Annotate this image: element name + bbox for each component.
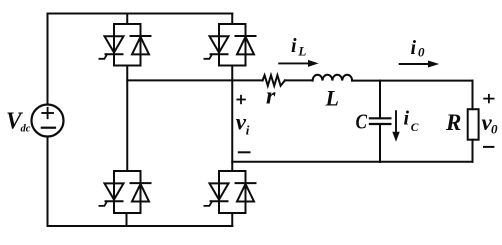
wire: bottom output return (node B to load) [232, 161, 472, 163]
wire: lead from top rail into upper-left cell [126, 14, 128, 25]
svg-text:0: 0 [491, 122, 498, 137]
thyristor T2 [204, 183, 228, 206]
wire: capacitor top lead [379, 81, 381, 119]
svg-text:i: i [411, 37, 417, 59]
svg-text:r: r [266, 84, 276, 110]
wire: upper-left cell frame [114, 24, 141, 66]
svg-text:i: i [246, 123, 250, 138]
inductor L [313, 75, 353, 81]
resistor r [263, 75, 285, 86]
svg-text:0: 0 [418, 45, 425, 60]
svg-text:L: L [297, 44, 306, 59]
svg-text:i: i [291, 35, 297, 57]
svg-text:C: C [411, 122, 419, 134]
wire: lead from lower-left cell to bottom rail [126, 213, 128, 226]
label i_C [404, 108, 419, 134]
label v_0 with polarity [482, 95, 499, 147]
resistor R (load box) [468, 109, 479, 140]
wire: lead from top rail into upper-right cell [231, 14, 233, 25]
arrow i_C [392, 111, 399, 142]
wire: R load bottom lead [472, 140, 474, 162]
svg-text:R: R [445, 110, 461, 135]
svg-text:i: i [404, 108, 410, 130]
label v_i with polarity [236, 96, 250, 153]
wire: upper-right cell frame [219, 24, 246, 66]
arrow i_0 [400, 61, 440, 68]
wire: lead from lower-right cell to bottom rail [231, 213, 233, 226]
svg-text:dc: dc [21, 124, 31, 135]
dc source V_dc [32, 105, 64, 137]
node A: left-leg midpoint junction to output [127, 79, 262, 81]
capacitor C [370, 118, 391, 124]
wire: inductor to load corner [352, 80, 472, 82]
thyristor T1 [99, 36, 123, 59]
svg-text:C: C [356, 109, 368, 133]
thyristor T3 [204, 36, 228, 59]
label i_L [291, 35, 306, 59]
label V_dc [6, 108, 31, 135]
diode D4 [131, 183, 151, 201]
diode D2 [236, 183, 256, 201]
svg-text:L: L [325, 85, 339, 110]
arrow i_L [279, 60, 318, 67]
wire: left wire upper (rail to source) [47, 14, 49, 105]
wire: between r and L [285, 79, 313, 81]
wire: lower-right cell frame [219, 171, 246, 213]
wire: left wire lower (source to bottom rail) [47, 137, 49, 227]
wire: lower-left cell frame [114, 171, 141, 213]
wire: top rail [48, 13, 233, 15]
label i_0 [411, 37, 426, 60]
wire: left leg (upper-left cell to lower-left cell) [126, 66, 128, 172]
wire: right leg (upper-right cell to lower-right cell) [231, 66, 233, 172]
diode D3 [236, 36, 256, 54]
thyristor T4 [99, 183, 123, 206]
wire: bottom rail [48, 225, 233, 227]
wire: R load top lead [472, 81, 474, 110]
wire: capacitor bottom lead [379, 124, 381, 162]
diode D1 [131, 36, 151, 54]
